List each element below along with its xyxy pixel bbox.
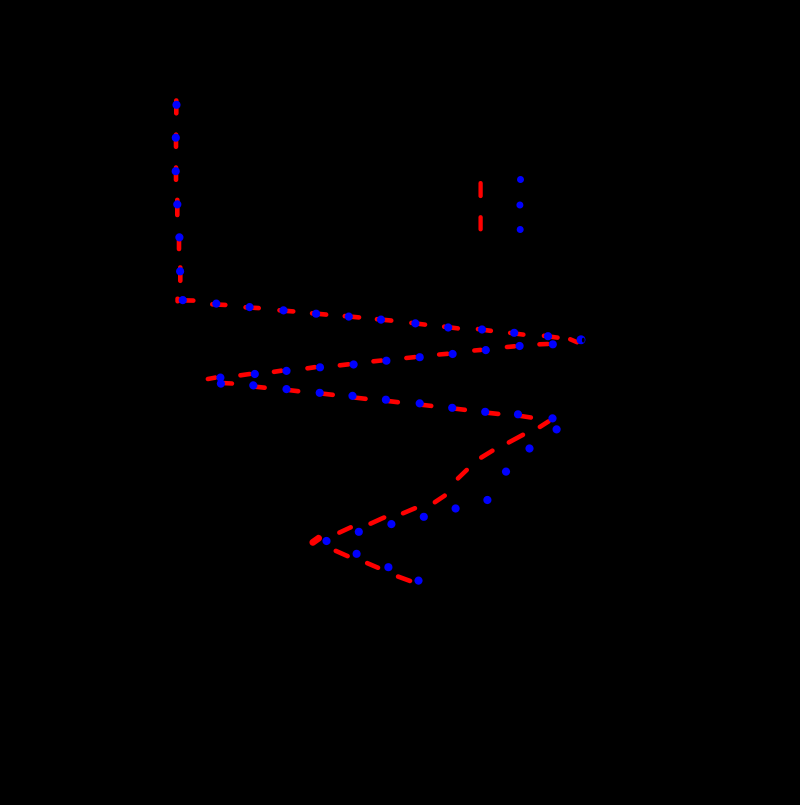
blue point lower-arm-1	[353, 550, 361, 558]
blue point v3	[172, 167, 180, 175]
red dashed line: vert dash 6	[178, 268, 183, 281]
blue point lower-arm-2	[384, 563, 392, 571]
red dashed line: row1 dash B	[212, 302, 225, 307]
red dashed line: row3 dash AD	[453, 408, 465, 409]
blue point row1-2	[246, 303, 254, 311]
blue point row2-8	[316, 363, 324, 371]
blue point row1-5	[345, 313, 353, 321]
red dashed line: vert dash 4	[175, 200, 180, 215]
blue point row2-6	[382, 357, 390, 365]
red dashed line: row1 dash I	[444, 327, 458, 329]
blue point row3-10	[548, 414, 556, 422]
blue point row3-1	[249, 381, 257, 389]
blue point descent-1	[553, 425, 561, 433]
red dashed line: row3 dash Z	[320, 393, 333, 394]
red dashed line: vert dash 1	[174, 101, 179, 114]
blue point row3-2	[282, 385, 290, 393]
legend blue point 3	[517, 226, 524, 233]
blue point row3-9	[514, 410, 522, 418]
blue point v1	[172, 101, 180, 109]
blue point row1-4	[312, 310, 320, 318]
red dashed line: row3 dash X	[254, 387, 265, 388]
black notch inside ring point	[582, 338, 585, 343]
blue point row2-11	[216, 374, 224, 382]
blue point descent-3	[502, 468, 510, 476]
red dashed line: return dash M-N	[570, 339, 577, 342]
red dashed line: row1 dash J	[478, 329, 491, 331]
legend dash upper	[478, 183, 482, 196]
blue point left turn lower	[217, 380, 225, 388]
red dashed line: row2 dash P	[474, 348, 480, 353]
blue point descent-4	[483, 496, 491, 504]
blue point v5	[175, 233, 183, 241]
red dashed line: lower arm dash 2	[367, 563, 378, 568]
blue point descent-5	[452, 504, 460, 512]
red dashed line: row1 dash F	[345, 316, 359, 317]
red dashed line: row1 dash L	[544, 336, 558, 338]
blue point row3-8	[481, 408, 489, 416]
blue point row1-8	[444, 323, 452, 331]
blue point row1-7	[411, 319, 419, 327]
red dashed line: descent dash 2	[509, 435, 523, 443]
red dashed line: vert dash 3	[174, 168, 179, 180]
red dashed line: row1 dash A	[179, 298, 193, 303]
red dashed line: row3 dash AB	[386, 401, 397, 402]
red dashed line: descent dash 6	[403, 508, 415, 513]
blue point row2-7	[350, 360, 358, 368]
blue point row1-9	[478, 325, 486, 333]
red dashed line: row2 dash R	[374, 358, 382, 363]
blue ring point (right end)	[577, 335, 586, 344]
red dashed line: row3 dash AC	[420, 405, 431, 406]
blue point row3-4	[348, 392, 356, 400]
red dashed line: row2 dash N	[540, 342, 548, 347]
blue point row2-3	[482, 346, 490, 354]
red dashed line: row2 dash S	[406, 355, 414, 360]
blue point lower-arm-3	[414, 577, 422, 585]
blue point row3-6	[416, 399, 424, 407]
legend blue point 1	[517, 176, 524, 183]
legend blue point 2	[516, 202, 523, 209]
red dashed line: row1 dash G	[377, 319, 391, 320]
blue point corner turn	[179, 296, 187, 304]
red dashed line: row2 dash turnL	[208, 378, 215, 379]
red dashed line: descent dash 5	[435, 496, 445, 503]
red dashed line: row1 dash H	[411, 323, 425, 325]
blue point row2-4	[449, 350, 457, 358]
blue point V vertex	[322, 537, 330, 545]
blue point row2-2	[516, 342, 524, 350]
red dashed line: row2 dash U	[241, 374, 250, 375]
blue point row2-5	[416, 353, 424, 361]
blue point row3-3	[316, 389, 324, 397]
red dashed line: descent dash 1	[540, 421, 549, 427]
red dashed line: descent dash 8	[339, 527, 350, 532]
red dashed line: row3 dash AF	[519, 416, 531, 418]
red dashed line: descent dash 3	[481, 451, 492, 458]
blue point row1-10	[510, 329, 518, 337]
red dashed line: row1 dash C	[246, 305, 259, 310]
red dashed line: lower arm dash 3	[398, 577, 410, 581]
red dashed line: row1 dash D	[280, 310, 294, 311]
blue point v6	[176, 267, 184, 275]
red dashed line: lower arm dash 1	[336, 551, 348, 556]
blue point row1-1	[212, 300, 220, 308]
blue point row3-7	[448, 404, 456, 412]
blue point v2	[172, 134, 180, 142]
red dashed line: descent dash 4	[458, 470, 467, 478]
blue point row1-11	[544, 332, 552, 340]
blue point descent-8	[355, 528, 363, 536]
blue point descent-2	[525, 444, 533, 452]
red dashed line: row3 dash AE	[486, 413, 499, 414]
red dashed line: corner stub dash	[175, 299, 180, 301]
blue point descent-7	[387, 520, 395, 528]
red dashed line: row2 dash V	[274, 371, 281, 372]
red dashed line: vert dash 5	[177, 236, 182, 249]
blue point row2-1	[549, 340, 557, 348]
blue point row2-9	[282, 367, 290, 375]
red dashed line: descent dash 7	[371, 518, 385, 524]
red dashed line: row2 dash O	[507, 344, 514, 349]
blue point row2-10	[251, 370, 259, 378]
red dashed line: V vertex bent dash	[313, 538, 319, 542]
blue point v4	[173, 200, 181, 208]
blue point row1-6	[377, 316, 385, 324]
red dashed line: row2 dash W	[308, 367, 315, 368]
red dashed line: row3 dash turnL2	[221, 381, 232, 386]
red dashed line: row2 dash T	[439, 351, 447, 356]
red dashed line: row3 dash Y	[287, 390, 298, 391]
red dashed line: row3 dash AA	[353, 397, 366, 398]
blue point descent-6	[420, 513, 428, 521]
red dashed line: row2 dash Q	[340, 364, 349, 365]
blue point row3-5	[382, 396, 390, 404]
red dashed line: row1 dash K	[510, 333, 523, 335]
legend dash lower	[478, 217, 482, 229]
red dashed line: vert dash 2	[174, 135, 179, 147]
red dashed line: row1 dash E	[312, 313, 326, 314]
blue point row1-3	[279, 306, 287, 314]
